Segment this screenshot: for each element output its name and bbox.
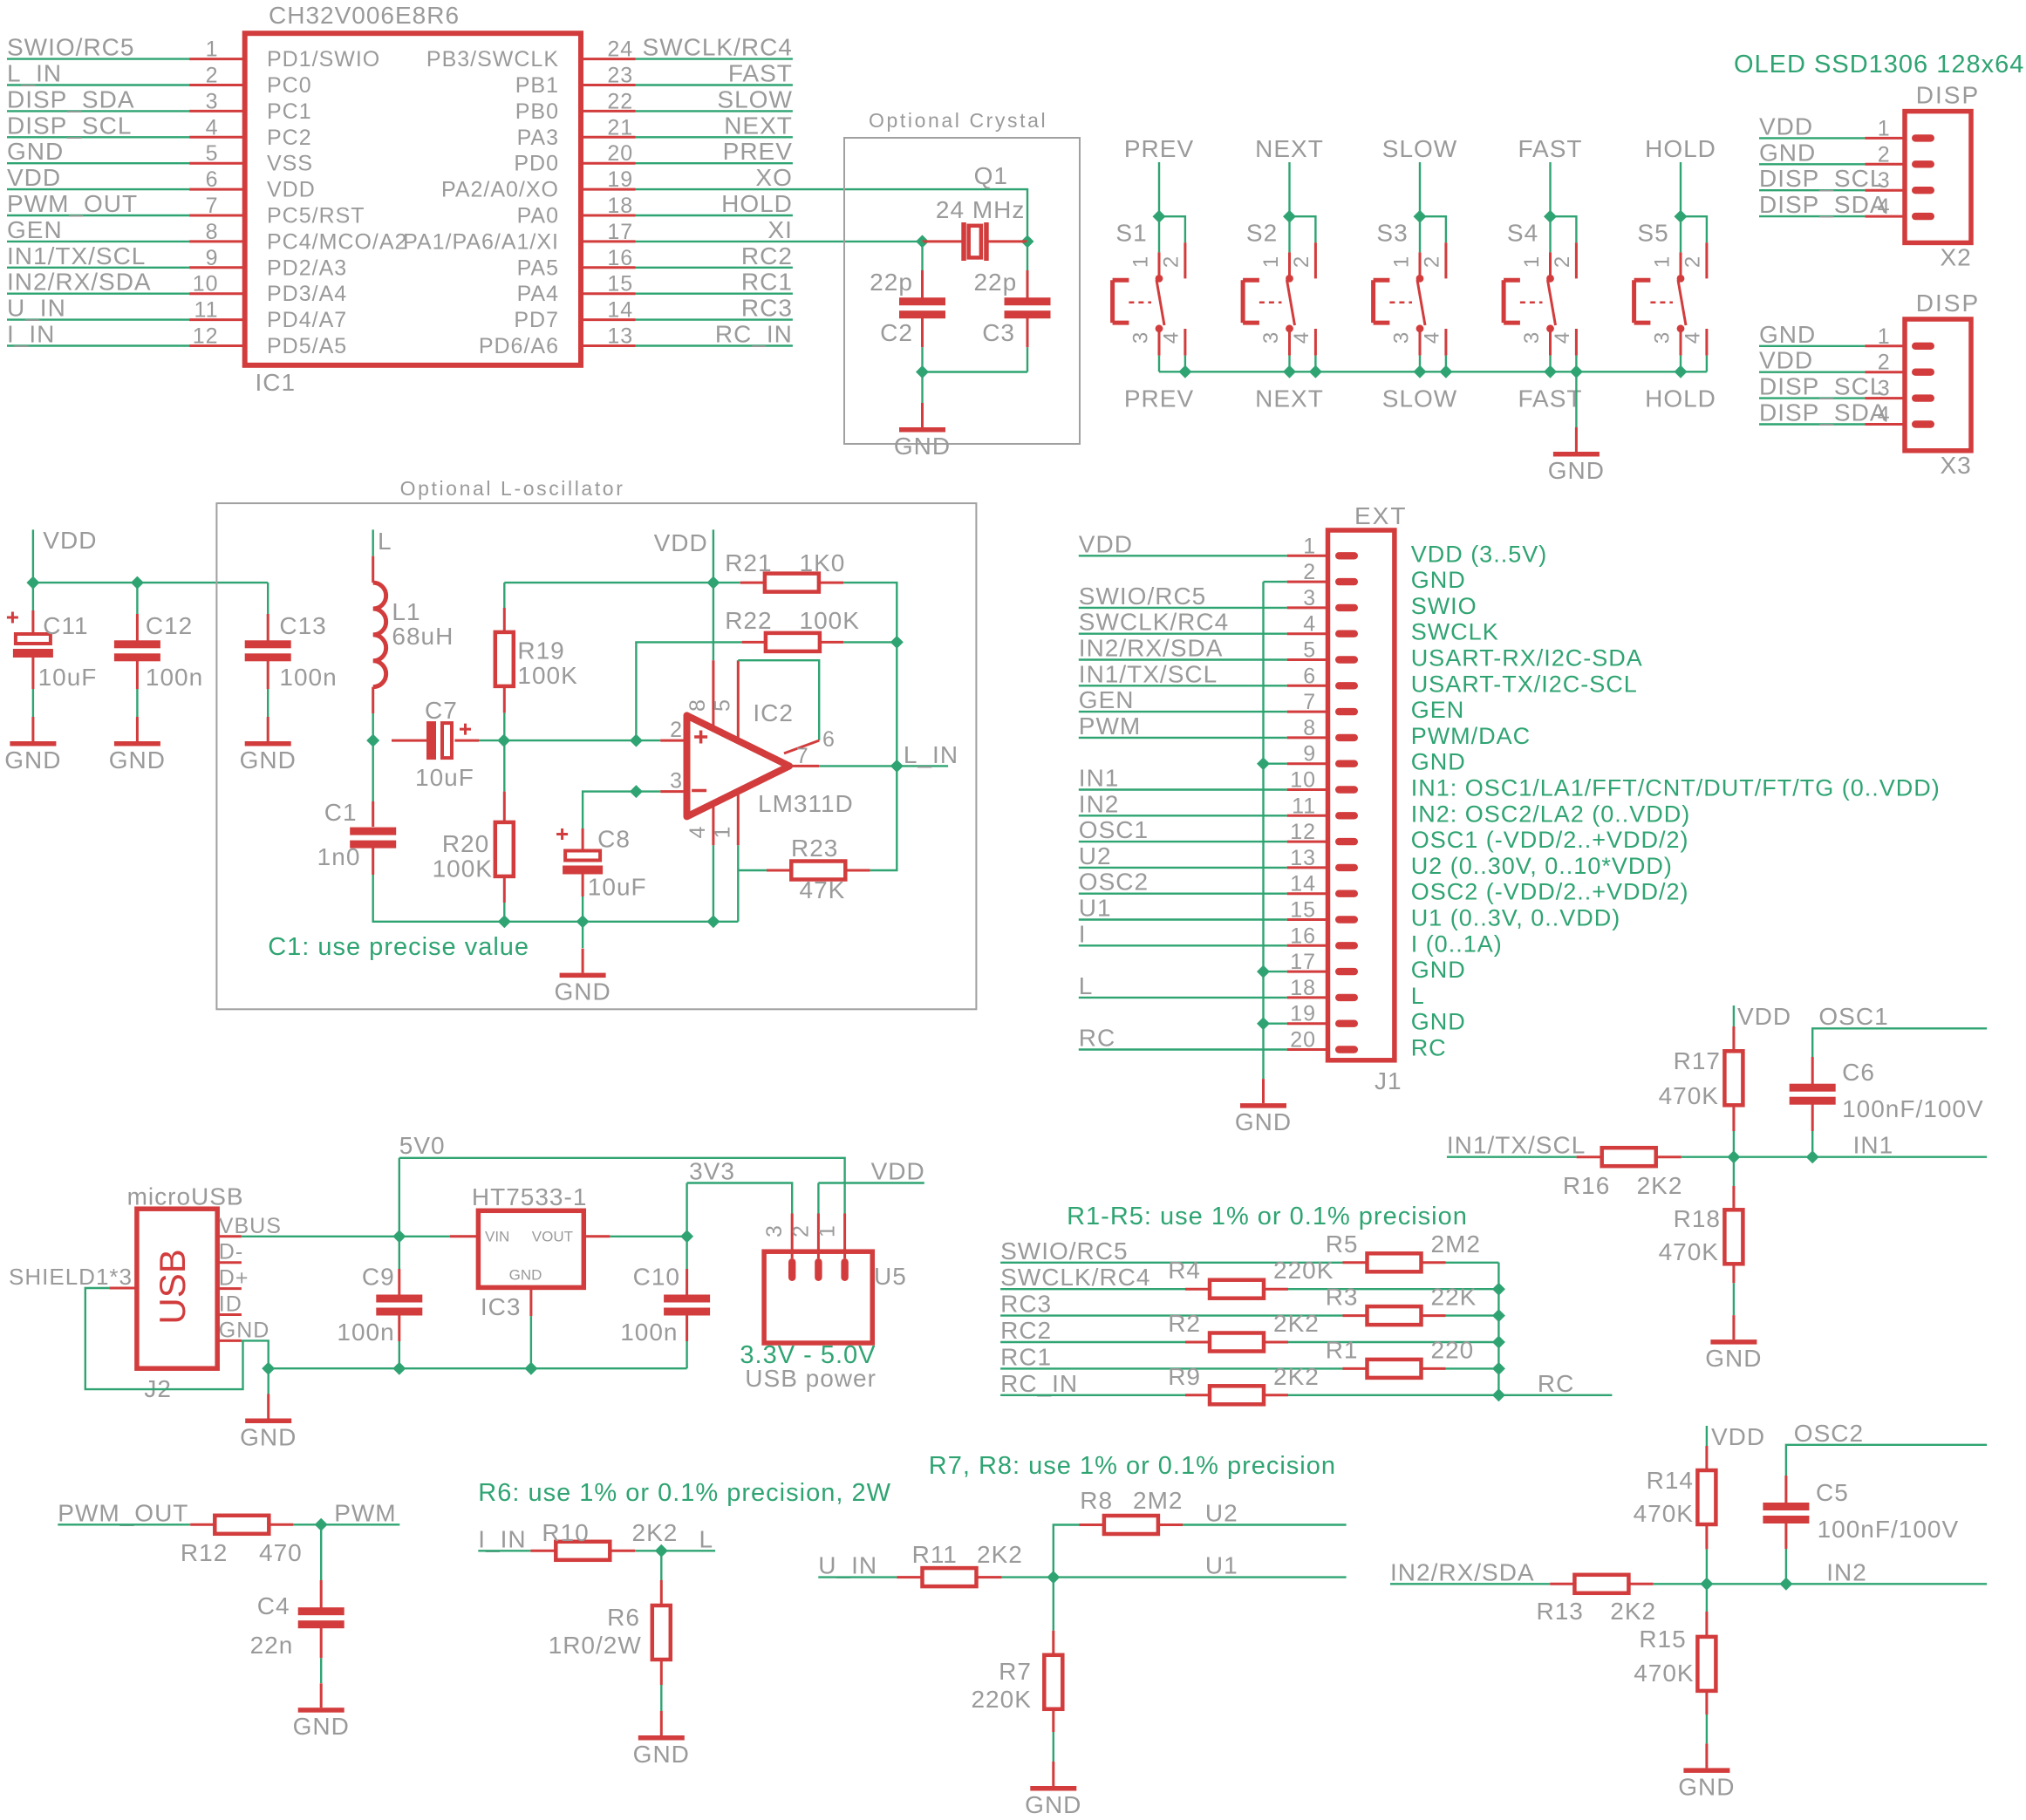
svg-text:VDD: VDD xyxy=(43,527,97,554)
ground USB GND xyxy=(240,1394,297,1451)
svg-text:R3: R3 xyxy=(1326,1284,1359,1311)
wire net SWIO/RC5 to J1 pin 3 xyxy=(1079,607,1287,609)
IC1 pin 22 (PB0) xyxy=(515,89,636,123)
svg-text:2K2: 2K2 xyxy=(1610,1598,1656,1625)
wire net IN2 to J1 pin 11 xyxy=(1079,815,1287,816)
svg-text:17: 17 xyxy=(607,220,633,244)
svg-text:R17: R17 xyxy=(1674,1047,1721,1074)
svg-text:R11: R11 xyxy=(912,1541,958,1568)
svg-text:PD5/A5: PD5/A5 xyxy=(267,334,347,358)
net label DISP_SCL xyxy=(1759,373,1884,400)
svg-text:100nF/100V: 100nF/100V xyxy=(1842,1095,1984,1122)
J1 pin 5 xyxy=(1287,638,1358,664)
wire net GND to X2 xyxy=(1759,163,1865,165)
net label SWIO/RC5 (J1) xyxy=(1079,583,1206,610)
svg-text:USB: USB xyxy=(152,1249,193,1324)
svg-text:8: 8 xyxy=(686,699,710,712)
net label PWM_OUT xyxy=(7,190,138,217)
wire net RC_IN xyxy=(636,344,793,346)
svg-text:2: 2 xyxy=(1681,256,1704,268)
wire net U_IN to IC1 pin 11 xyxy=(7,318,189,320)
svg-text:VDD: VDD xyxy=(1759,112,1813,140)
svg-text:100n: 100n xyxy=(146,664,203,691)
capacitor C2 xyxy=(870,269,945,347)
svg-text:3: 3 xyxy=(762,1225,787,1237)
svg-text:FAST: FAST xyxy=(1518,135,1582,162)
net label IN2/RX/SDA (filter) xyxy=(1390,1558,1535,1585)
svg-text:DISP_SDA: DISP_SDA xyxy=(1759,399,1887,426)
J1 pin 15 function label xyxy=(1411,905,1621,931)
svg-text:R1-R5: use 1% or 0.1% precisio: R1-R5: use 1% or 0.1% precision xyxy=(1067,1203,1468,1230)
svg-text:GND: GND xyxy=(1548,457,1605,484)
net label IN1/TX/SCL (J1) xyxy=(1079,660,1218,687)
svg-text:U1 (0..3V, 0..VDD): U1 (0..3V, 0..VDD) xyxy=(1411,905,1621,931)
svg-text:1: 1 xyxy=(206,37,219,62)
svg-text:RC: RC xyxy=(1411,1035,1447,1061)
svg-text:68uH: 68uH xyxy=(392,623,454,650)
svg-text:R9: R9 xyxy=(1168,1363,1201,1390)
svg-text:2: 2 xyxy=(1551,256,1574,268)
junction VOUT C10 xyxy=(680,1230,693,1243)
net label VDD (IN1) xyxy=(1737,1003,1791,1030)
svg-text:VDD: VDD xyxy=(654,529,708,556)
X2 pin 4 xyxy=(1865,194,1934,220)
net label OSC2 (J1) xyxy=(1079,869,1149,896)
svg-text:SWIO/RC5: SWIO/RC5 xyxy=(7,34,134,61)
capacitor C10 100n xyxy=(620,1237,710,1368)
J2 pin VBUS xyxy=(217,1214,282,1238)
svg-text:GND: GND xyxy=(1705,1345,1762,1372)
junction IN1 C6 xyxy=(1806,1150,1819,1163)
resistor R15 470K xyxy=(1634,1584,1716,1743)
svg-text:GND: GND xyxy=(1411,749,1466,775)
svg-text:OSC2 (-VDD/2..+VDD/2): OSC2 (-VDD/2..+VDD/2) xyxy=(1411,879,1689,905)
svg-text:C1: C1 xyxy=(324,799,358,826)
svg-text:DISP_SDA: DISP_SDA xyxy=(7,85,135,112)
svg-text:C10: C10 xyxy=(633,1264,680,1291)
svg-text:1: 1 xyxy=(1303,534,1316,558)
svg-text:U_IN: U_IN xyxy=(7,295,66,322)
svg-text:R19: R19 xyxy=(517,637,564,665)
wire usb gnd rail xyxy=(242,1340,687,1368)
svg-text:ID: ID xyxy=(219,1292,242,1317)
wire 5V0 net xyxy=(399,1158,845,1237)
ground IN1 GND xyxy=(1705,1315,1762,1372)
junction network bus xyxy=(1492,1388,1505,1401)
net label FAST xyxy=(728,60,793,87)
resistor R6 1R0/2W xyxy=(549,1551,671,1711)
svg-text:R12: R12 xyxy=(181,1539,228,1566)
svg-text:PB0: PB0 xyxy=(515,99,559,124)
svg-text:I: I xyxy=(1079,920,1087,947)
svg-text:1: 1 xyxy=(1259,256,1283,268)
IC1 pin 3 (PC1) xyxy=(189,89,312,123)
svg-text:IN2/RX/SDA: IN2/RX/SDA xyxy=(1390,1558,1535,1585)
J1 pin 10 xyxy=(1287,768,1358,794)
svg-text:RC: RC xyxy=(1538,1370,1574,1397)
svg-text:1: 1 xyxy=(815,1225,840,1237)
svg-text:47K: 47K xyxy=(800,876,846,903)
svg-text:4: 4 xyxy=(686,826,710,838)
svg-text:IN1/TX/SCL: IN1/TX/SCL xyxy=(1447,1132,1586,1159)
svg-text:PD3/A4: PD3/A4 xyxy=(267,282,347,306)
svg-text:4: 4 xyxy=(206,115,219,140)
wire L node xyxy=(372,529,374,556)
svg-text:OSC2: OSC2 xyxy=(1079,869,1149,896)
svg-text:IN2: OSC2/LA2 (0..VDD): IN2: OSC2/LA2 (0..VDD) xyxy=(1411,801,1691,827)
wire S5 pin1-2 bridge xyxy=(1681,216,1707,252)
wire S5 pins to rail xyxy=(1681,356,1707,372)
svg-text:R8: R8 xyxy=(1080,1487,1113,1514)
svg-text:4: 4 xyxy=(1681,332,1704,344)
svg-text:SWCLK/RC4: SWCLK/RC4 xyxy=(643,34,793,61)
J1 pin 10 function label xyxy=(1411,775,1941,801)
resistor R13 2K2 xyxy=(1537,1575,1657,1625)
svg-text:16: 16 xyxy=(1290,924,1316,948)
svg-text:PWM: PWM xyxy=(1079,712,1141,740)
IC1 pin 15 (PA4) xyxy=(517,272,636,307)
svg-text:VDD: VDD xyxy=(267,178,316,202)
net label I (J1) xyxy=(1079,920,1087,947)
net label HOLD (bottom) xyxy=(1645,385,1716,412)
switch S3 xyxy=(1374,219,1446,355)
net label U2 (J1) xyxy=(1079,842,1112,869)
IC1 pin 7 (PC5/RST) xyxy=(189,194,365,228)
svg-text:L: L xyxy=(1411,983,1425,1009)
wire IN1/TX/SCL to R16 xyxy=(1447,1155,1577,1157)
svg-text:R7, R8: use 1% or 0.1% precisi: R7, R8: use 1% or 0.1% precision xyxy=(929,1452,1336,1480)
svg-text:C2: C2 xyxy=(880,319,913,346)
J2 shield pin xyxy=(9,1264,137,1290)
svg-text:PA5: PA5 xyxy=(517,256,559,280)
wire OSC1 net xyxy=(1812,1028,1987,1057)
net label 3V3 xyxy=(689,1158,735,1185)
svg-text:10uF: 10uF xyxy=(415,764,474,791)
wire net L_IN to IC1 pin 2 xyxy=(7,84,189,85)
svg-text:19: 19 xyxy=(1290,1002,1316,1026)
svg-text:IN1: OSC1/LA1/FFT/CNT/DUT/FT/T: IN1: OSC1/LA1/FFT/CNT/DUT/FT/TG (0..VDD) xyxy=(1411,775,1941,801)
svg-text:GEN: GEN xyxy=(7,216,63,243)
svg-text:470K: 470K xyxy=(1634,1500,1694,1527)
J1 pin 3 function label xyxy=(1411,593,1477,619)
net label HOLD (top) xyxy=(1645,135,1716,162)
junction S1 top xyxy=(1153,210,1166,223)
svg-text:23: 23 xyxy=(607,64,633,88)
svg-text:X3: X3 xyxy=(1941,452,1972,479)
wire C7 to R19/R22/pin2 node xyxy=(479,740,660,741)
net label VDD (J1) xyxy=(1079,530,1133,557)
junction crystal right node xyxy=(1021,235,1034,248)
frame Optional Crystal xyxy=(844,109,1080,444)
svg-text:2K2: 2K2 xyxy=(1273,1310,1320,1337)
resistor R14 470K xyxy=(1634,1426,1716,1584)
svg-text:C12: C12 xyxy=(146,612,193,639)
resistor R23 47K xyxy=(738,835,870,903)
svg-text:6: 6 xyxy=(822,727,836,752)
svg-text:R22: R22 xyxy=(725,607,772,634)
svg-text:PB3/SWCLK: PB3/SWCLK xyxy=(426,47,559,72)
net label SLOW (top) xyxy=(1382,135,1457,162)
net label RC3 (network) xyxy=(1000,1291,1052,1318)
net label DISP_SCL xyxy=(1759,165,1884,192)
wire C2 top lead xyxy=(921,242,923,270)
svg-text:22p: 22p xyxy=(870,269,913,296)
switch S2 xyxy=(1243,219,1315,355)
svg-text:10uF: 10uF xyxy=(588,874,647,901)
svg-text:IN2: IN2 xyxy=(1079,790,1120,817)
svg-text:U2: U2 xyxy=(1205,1500,1238,1527)
wire PWM_OUT to R12 xyxy=(58,1523,190,1525)
resistor R17 470K xyxy=(1659,1005,1743,1157)
svg-text:SWCLK: SWCLK xyxy=(1411,619,1499,645)
net label NEXT xyxy=(724,112,793,139)
capacitor C4 22n xyxy=(250,1524,344,1683)
svg-text:24 MHz: 24 MHz xyxy=(936,196,1025,223)
svg-text:L: L xyxy=(378,528,392,555)
svg-text:U_IN: U_IN xyxy=(818,1552,877,1579)
svg-text:22K: 22K xyxy=(1431,1284,1477,1311)
J1 pin 15 xyxy=(1287,898,1358,924)
net label RC1 (network) xyxy=(1000,1343,1052,1370)
wire net IN2/RX/SDA to J1 pin 5 xyxy=(1079,658,1287,660)
svg-text:R6: use 1% or 0.1% precision,: R6: use 1% or 0.1% precision, 2W xyxy=(478,1479,891,1507)
svg-text:PWM_OUT: PWM_OUT xyxy=(58,1499,188,1526)
svg-text:18: 18 xyxy=(607,194,633,218)
svg-text:L: L xyxy=(699,1525,714,1552)
IC1 pin 11 (PD4/A7) xyxy=(189,298,347,333)
svg-text:C13: C13 xyxy=(279,612,326,639)
junction rail xyxy=(1544,365,1557,378)
svg-text:DISP_SCL: DISP_SCL xyxy=(7,112,132,139)
svg-text:1: 1 xyxy=(711,827,735,839)
net label 5V0 xyxy=(399,1132,446,1159)
net label SWCLK/RC4 xyxy=(643,34,793,61)
svg-text:DISP: DISP xyxy=(1916,81,1980,108)
resistor R16 2K2 xyxy=(1563,1148,1683,1199)
svg-text:PA1/PA6/A1/XI: PA1/PA6/A1/XI xyxy=(403,229,559,254)
svg-text:R23: R23 xyxy=(791,835,838,862)
capacitor C9 100n xyxy=(337,1237,422,1368)
annotation OLED SSD1306 128x64 xyxy=(1734,51,2024,78)
svg-text:S4: S4 xyxy=(1507,219,1538,246)
J1 pin 13 function label xyxy=(1411,853,1673,879)
svg-text:PREV: PREV xyxy=(1124,385,1194,412)
svg-text:S1: S1 xyxy=(1115,219,1147,246)
svg-text:EXT: EXT xyxy=(1354,502,1407,529)
svg-text:R1: R1 xyxy=(1326,1336,1359,1363)
J1 pin 4 function label xyxy=(1411,619,1499,645)
J1 pin 16 function label xyxy=(1411,930,1503,957)
resistor R5 2M2 xyxy=(1326,1230,1481,1272)
svg-text:VDD (3..5V): VDD (3..5V) xyxy=(1411,541,1548,567)
resistor R18 470K xyxy=(1659,1157,1743,1315)
wire net VDD to X2 xyxy=(1759,137,1865,139)
ground osc GND xyxy=(554,949,611,1005)
junction bus pin19 xyxy=(1257,1017,1270,1030)
junction rail xyxy=(1675,365,1688,378)
net label FAST (top) xyxy=(1518,135,1582,162)
svg-text:100n: 100n xyxy=(337,1319,394,1346)
junction pin2 node xyxy=(630,734,643,747)
svg-text:IN2: IN2 xyxy=(1826,1558,1867,1585)
svg-text:RC3: RC3 xyxy=(741,295,793,322)
ground R7 GND xyxy=(1025,1762,1081,1818)
wire pin3 node to C8 xyxy=(583,792,660,828)
net label IN2 (J1) xyxy=(1079,790,1120,817)
svg-text:CH32V006E8R6: CH32V006E8R6 xyxy=(269,2,460,29)
wire net DISP_SCL to IC1 pin 4 xyxy=(7,136,189,138)
junction network bus xyxy=(1492,1309,1505,1322)
ground C11 GND xyxy=(4,717,61,774)
resistor R20 100K xyxy=(433,740,514,922)
svg-text:NEXT: NEXT xyxy=(1255,135,1324,162)
svg-text:OSC1: OSC1 xyxy=(1079,816,1149,843)
junction IC3 gnd xyxy=(524,1362,537,1375)
wire gnd stem xyxy=(921,372,923,404)
svg-text:100K: 100K xyxy=(800,607,860,634)
wire net IN2/RX/SDA to IC1 pin 10 xyxy=(7,293,189,295)
frame Optional L-oscillator xyxy=(216,477,976,1009)
wire S1 pins to rail xyxy=(1159,356,1185,372)
wire VDD into op-amp pin8 xyxy=(713,529,714,660)
wire net XI xyxy=(636,241,923,242)
J2 pin D- xyxy=(217,1240,243,1264)
svg-text:220K: 220K xyxy=(1273,1257,1334,1284)
wire RC2 row xyxy=(1000,1341,1498,1343)
wire net U2 to J1 pin 13 xyxy=(1079,867,1287,869)
IC2 pin 6 stub xyxy=(784,727,836,753)
wire IC3 gnd drop xyxy=(530,1316,532,1368)
svg-text:8: 8 xyxy=(1303,716,1316,740)
ground IN2 GND xyxy=(1678,1743,1735,1800)
svg-text:IC2: IC2 xyxy=(753,699,794,726)
resistor R7 220K xyxy=(971,1578,1062,1762)
net label I_IN (R10) xyxy=(478,1525,526,1552)
svg-text:PD7: PD7 xyxy=(514,308,559,332)
svg-text:OSC1: OSC1 xyxy=(1818,1003,1888,1030)
capacitor C11 (polarized 10uF) xyxy=(7,583,98,717)
junction C7 left xyxy=(366,734,379,747)
net label VDD (osc) xyxy=(654,529,708,556)
wire R11 to U node xyxy=(1002,1576,1054,1578)
svg-text:C5: C5 xyxy=(1816,1479,1849,1506)
ground C4 GND xyxy=(293,1683,350,1740)
svg-text:IN1: IN1 xyxy=(1079,765,1120,792)
wire J1 gnd bus xyxy=(1264,582,1287,1079)
resistor R1 220 xyxy=(1326,1336,1475,1378)
switch S1 xyxy=(1113,219,1185,355)
wire S3 pins to rail xyxy=(1420,356,1446,372)
net label IN2/RX/SDA (J1) xyxy=(1079,635,1224,662)
junction S5 top xyxy=(1675,210,1688,223)
svg-text:PD2/A3: PD2/A3 xyxy=(267,256,347,280)
svg-text:R18: R18 xyxy=(1674,1205,1721,1232)
J1 pin 8 function label xyxy=(1411,723,1531,749)
svg-text:100K: 100K xyxy=(433,855,493,883)
svg-text:C7: C7 xyxy=(425,697,458,724)
ground crystal GND xyxy=(894,403,951,460)
net label RC (network) xyxy=(1538,1370,1574,1397)
wire right column to R23 xyxy=(870,766,897,870)
resistor R4 220K xyxy=(1168,1257,1334,1299)
svg-text:GND: GND xyxy=(1411,957,1466,983)
wire net XO xyxy=(636,189,1028,242)
connector J5 body xyxy=(764,1251,907,1343)
svg-text:SWIO/RC5: SWIO/RC5 xyxy=(1000,1237,1128,1264)
svg-text:I_IN: I_IN xyxy=(7,321,55,348)
wire net VDD to IC1 pin 6 xyxy=(7,188,189,190)
wire net IN1/TX/SCL to J1 pin 6 xyxy=(1079,685,1287,686)
svg-text:GEN: GEN xyxy=(1411,697,1465,723)
J2 pin GND xyxy=(217,1318,269,1342)
crystal Q1 xyxy=(923,162,1028,261)
svg-text:DISP_SCL: DISP_SCL xyxy=(1759,373,1884,400)
wire net HOLD xyxy=(636,215,793,216)
net label IN2 xyxy=(1826,1558,1867,1585)
wire R16 to IN1 node xyxy=(1682,1155,1987,1157)
wire net I_IN to IC1 pin 12 xyxy=(7,344,189,346)
svg-text:R15: R15 xyxy=(1639,1626,1686,1653)
junction bus pin9 xyxy=(1257,757,1270,770)
wire net GEN to J1 pin 7 xyxy=(1079,711,1287,712)
svg-text:100n: 100n xyxy=(279,664,337,691)
svg-text:VDD: VDD xyxy=(1759,347,1813,374)
J1 pin 9 xyxy=(1287,742,1358,767)
op-amp IC2 LM311D xyxy=(687,699,854,817)
svg-text:4: 4 xyxy=(1159,332,1183,344)
net label U1 xyxy=(1205,1552,1238,1579)
svg-text:GND: GND xyxy=(109,746,166,774)
svg-text:RC: RC xyxy=(1079,1025,1115,1052)
annotation microUSB xyxy=(127,1183,244,1210)
net label L_IN xyxy=(7,60,62,87)
svg-text:9: 9 xyxy=(206,246,219,270)
svg-text:3V3: 3V3 xyxy=(689,1158,735,1185)
svg-text:2M2: 2M2 xyxy=(1431,1230,1481,1258)
J1 pin 20 xyxy=(1287,1028,1358,1053)
net label PREV (bottom) xyxy=(1124,385,1194,412)
wire net VDD to J1 pin 1 xyxy=(1079,555,1287,556)
junction R19 bottom node xyxy=(497,734,510,747)
wire net I to J1 pin 16 xyxy=(1079,944,1287,946)
svg-text:RC1: RC1 xyxy=(741,269,793,296)
svg-text:7: 7 xyxy=(1303,690,1316,714)
wire net IN1/TX/SCL to IC1 pin 9 xyxy=(7,267,189,269)
wire RC1 row xyxy=(1000,1367,1498,1369)
J1 pin 16 xyxy=(1287,924,1358,949)
svg-text:12: 12 xyxy=(193,324,219,349)
svg-text:L_IN: L_IN xyxy=(904,741,958,768)
svg-text:PD6/A6: PD6/A6 xyxy=(479,334,559,358)
svg-text:22p: 22p xyxy=(973,269,1017,296)
wire osc gnd stem xyxy=(582,922,583,948)
J1 pin 17 function label xyxy=(1411,957,1466,983)
net label VDD xyxy=(1759,112,1813,140)
svg-text:21: 21 xyxy=(607,115,633,140)
wire net DISP_SDA to X3 xyxy=(1759,423,1865,425)
net label IN1/TX/SCL (filter) xyxy=(1447,1132,1586,1159)
svg-text:R7: R7 xyxy=(999,1658,1032,1685)
IC1 pin 12 (PD5/A5) xyxy=(189,324,347,359)
svg-text:22n: 22n xyxy=(250,1632,294,1659)
net label GEN xyxy=(7,216,63,243)
net label PWM_OUT xyxy=(58,1499,188,1526)
svg-text:PC4/MCO/A2: PC4/MCO/A2 xyxy=(267,229,407,254)
J5 pin 2 xyxy=(788,1214,822,1282)
wire net OSC2 to J1 pin 14 xyxy=(1079,892,1287,894)
net label GND xyxy=(1759,321,1816,348)
J1 pin 1 xyxy=(1287,534,1358,559)
